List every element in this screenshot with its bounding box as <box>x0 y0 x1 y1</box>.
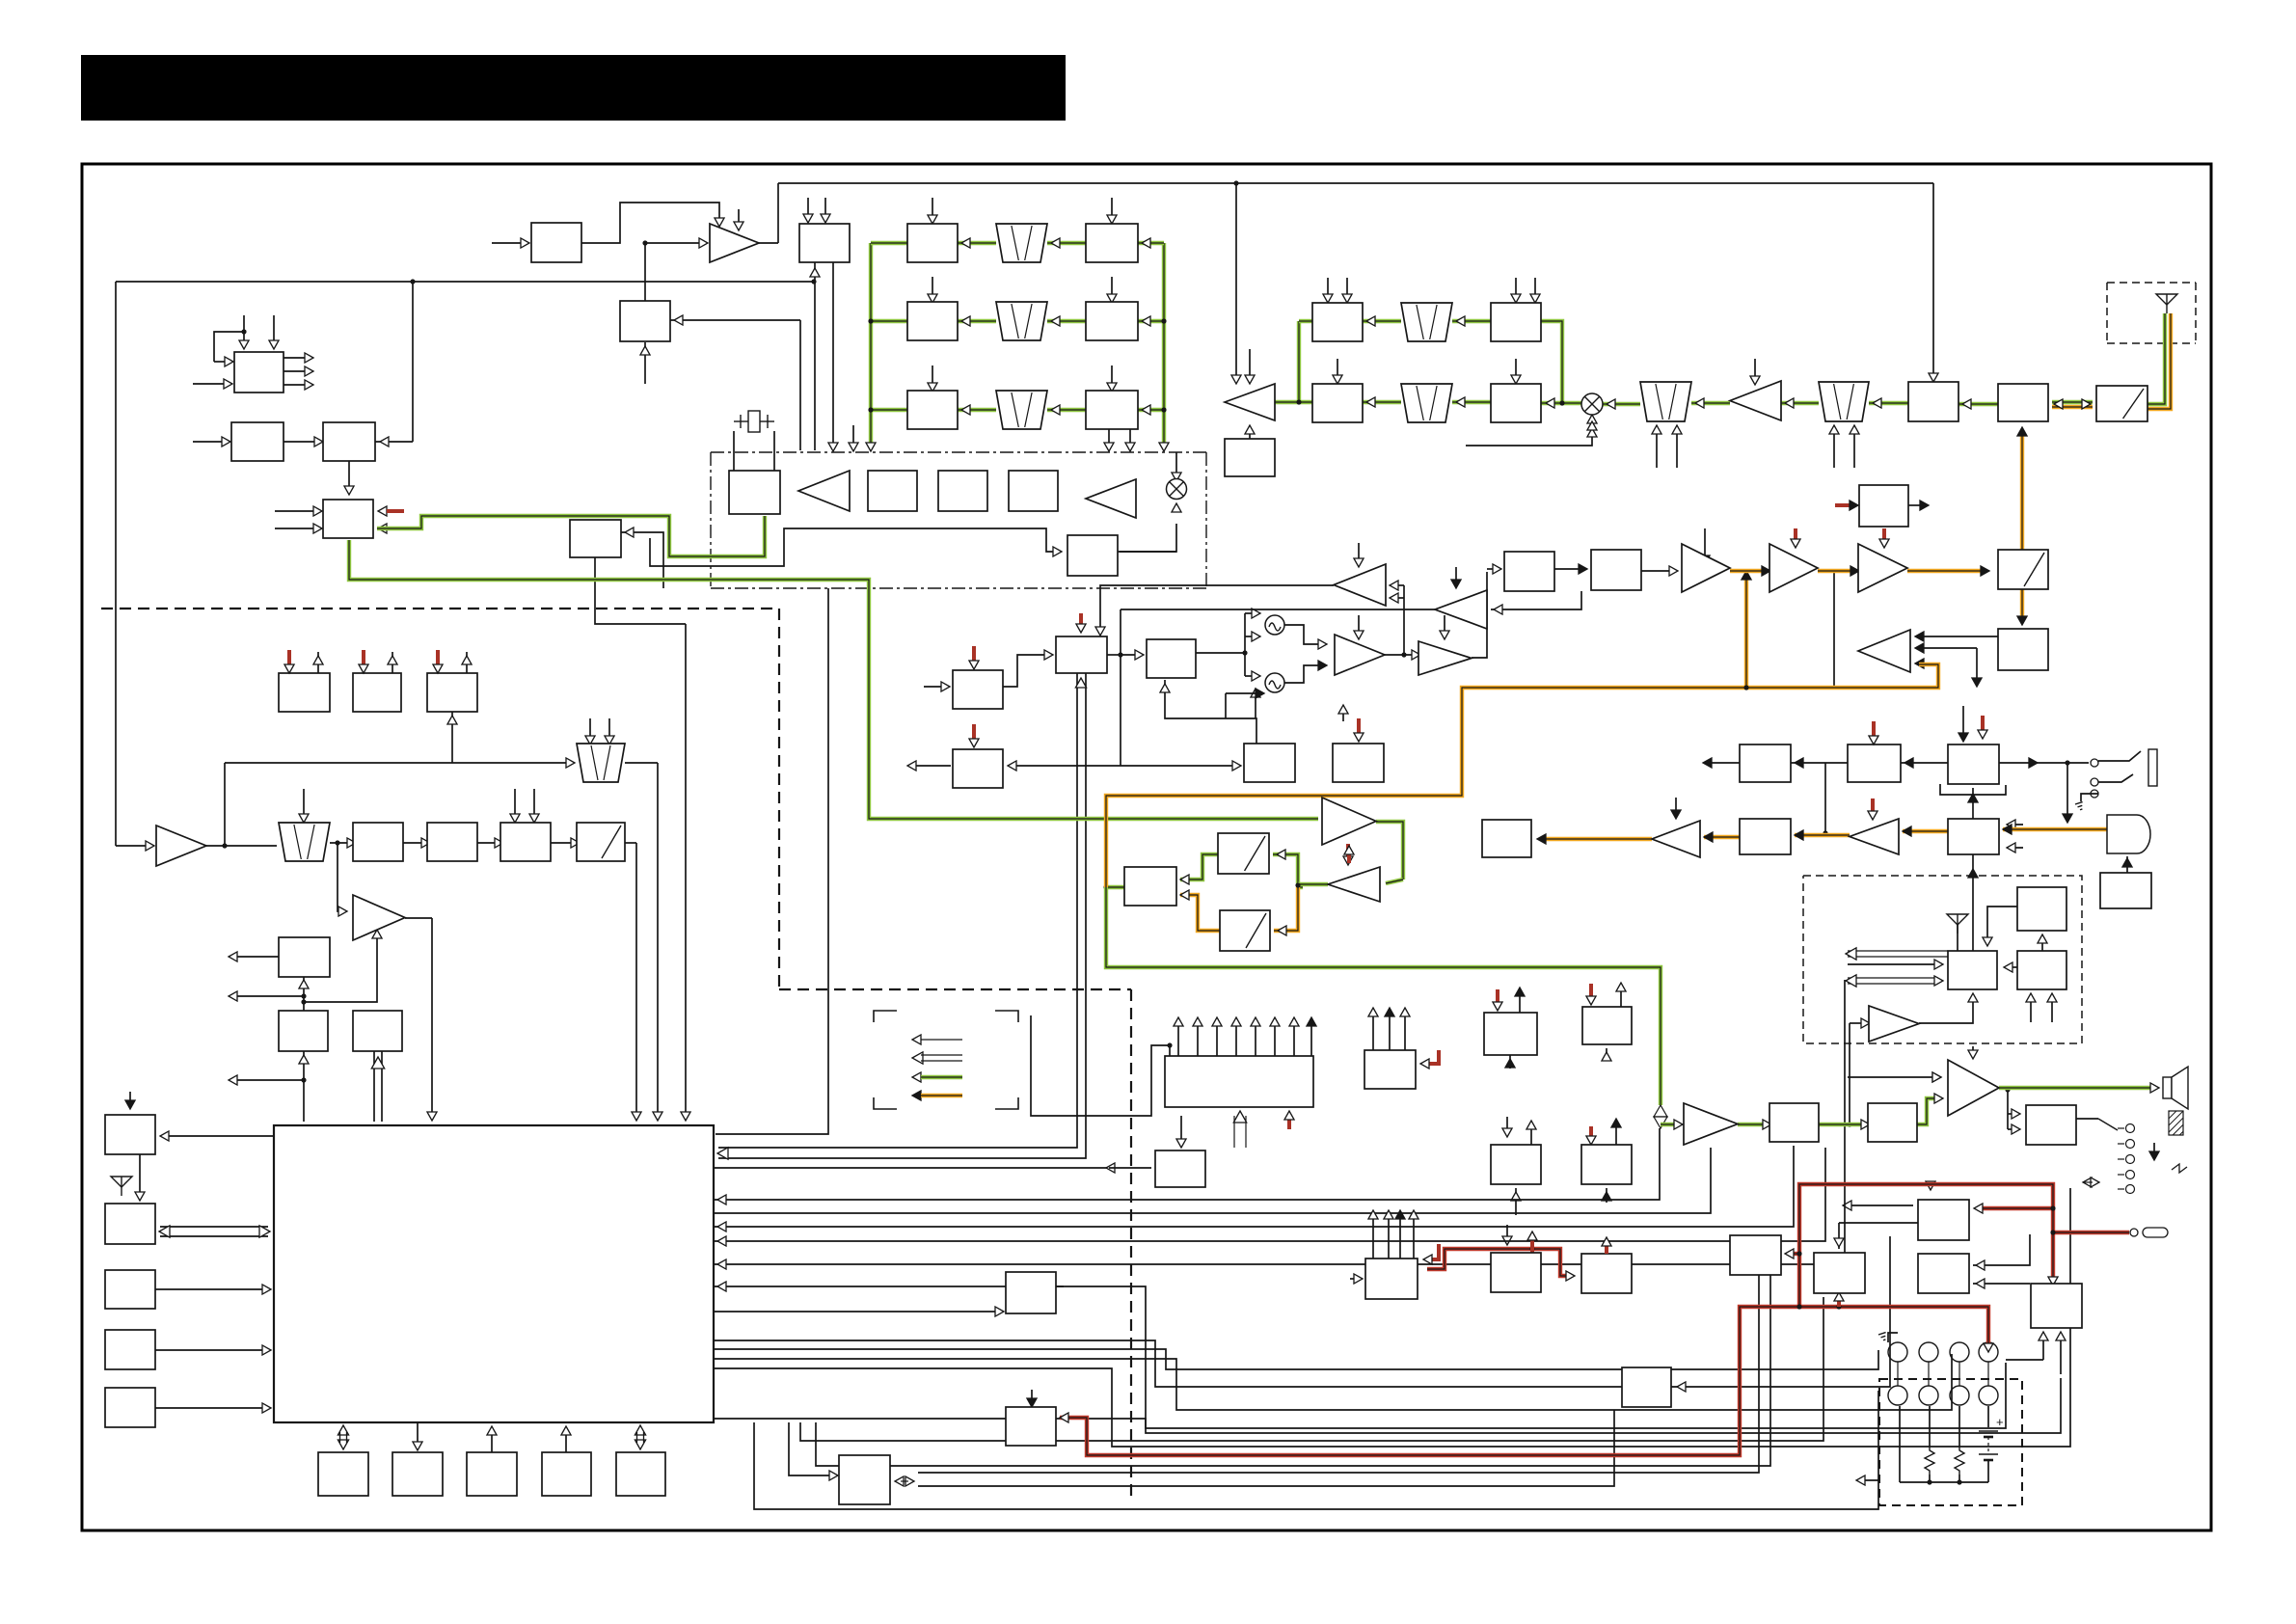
svg-text:+: + <box>1996 1415 2004 1429</box>
